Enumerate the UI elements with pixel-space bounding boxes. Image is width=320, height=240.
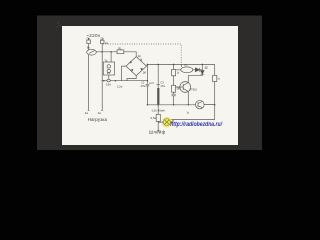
diode marks on bridge bbox=[130, 59, 144, 72]
svg-text:Нагрузка: Нагрузка bbox=[88, 117, 108, 122]
resistor 0,5м bbox=[156, 114, 160, 121]
transistor Т1 base bbox=[176, 84, 184, 90]
resistor R8 bbox=[213, 75, 217, 81]
wire Д5 branch bbox=[201, 64, 203, 70]
wire lamp branch bbox=[157, 105, 159, 115]
resistor R3 bbox=[172, 85, 176, 92]
transistor Т1 emitter bbox=[183, 89, 188, 105]
wire bbox=[173, 76, 175, 86]
dashed control wire bbox=[103, 44, 181, 64]
wire R-chain branch bbox=[173, 64, 175, 69]
svg-text:R1: R1 bbox=[118, 46, 122, 50]
wire relay to diode bbox=[193, 69, 196, 71]
switch contact bbox=[89, 51, 94, 54]
junction dots bbox=[101, 51, 215, 132]
transistor Т1 collector bbox=[183, 83, 188, 86]
wire bottom bus bbox=[171, 119, 214, 121]
relay Р1 coil bbox=[181, 67, 193, 73]
wire bbox=[88, 44, 90, 50]
wire transformer bottom bbox=[108, 75, 110, 79]
svg-text:http://radiobezdna.ru/: http://radiobezdna.ru/ bbox=[170, 121, 223, 128]
svg-text:0,5А: 0,5А bbox=[106, 84, 111, 87]
wire secondary bus bbox=[102, 80, 148, 82]
svg-text:Пр: Пр bbox=[87, 37, 91, 41]
wire to bridge bbox=[124, 52, 136, 57]
wire mid bus bbox=[147, 104, 214, 106]
transformer winding 1 bbox=[107, 65, 110, 68]
wire C3 branch bbox=[156, 64, 160, 88]
wire R8 branch bbox=[214, 64, 216, 75]
wire bridge bottom bbox=[127, 76, 136, 81]
wire load right bbox=[101, 44, 103, 111]
wire C2 branch bbox=[146, 64, 150, 104]
capacitor C3 body bbox=[157, 88, 159, 104]
wire right vertical bbox=[214, 82, 216, 120]
diode bar bbox=[199, 68, 202, 72]
wire primary feed bbox=[110, 52, 112, 62]
svg-text:2,2w: 2,2w bbox=[117, 84, 123, 88]
lamp Шлейф highlight bbox=[158, 117, 173, 128]
svg-text:Шлейф: Шлейф bbox=[149, 130, 166, 135]
resistor R2 bbox=[172, 70, 176, 76]
wire top bus bbox=[147, 64, 215, 66]
svg-text:47м: 47м bbox=[160, 84, 165, 88]
svg-text:2м: 2м bbox=[85, 111, 88, 115]
svg-text:1,5v 40мА: 1,5v 40мА bbox=[151, 108, 164, 112]
svg-text:С1: С1 bbox=[101, 37, 105, 41]
resistor R1 bbox=[117, 50, 124, 54]
svg-text:1м: 1м bbox=[105, 41, 108, 45]
transistor Т2 internals bbox=[198, 101, 203, 108]
capacitor C4 bbox=[171, 92, 175, 105]
relay lead left bbox=[176, 64, 182, 69]
transformer Тр box bbox=[103, 62, 114, 75]
transistor Т1 circle bbox=[180, 82, 191, 93]
transistor Т2 circle bbox=[196, 100, 205, 109]
wire to terminal bbox=[157, 121, 159, 130]
diode Д6 horizontal bbox=[195, 68, 199, 72]
wire mains left bbox=[88, 38, 90, 40]
wire bridge left bbox=[122, 66, 126, 81]
lamp small on bus bbox=[107, 79, 110, 82]
diode Д5 vertical bbox=[201, 71, 205, 74]
wire mains right bbox=[101, 38, 103, 40]
labels bbox=[85, 33, 221, 135]
svg-text:+С3: +С3 bbox=[149, 81, 154, 85]
svg-text:0,5м: 0,5м bbox=[151, 116, 157, 120]
svg-text:КТ815: КТ815 bbox=[190, 89, 198, 92]
fuse Пр left bbox=[87, 40, 91, 44]
svg-text:Д5: Д5 bbox=[205, 66, 209, 70]
wire load left bbox=[88, 55, 90, 111]
diode bar bbox=[188, 74, 204, 82]
svg-text:Р1: Р1 bbox=[184, 63, 188, 67]
svg-text:2м: 2м bbox=[98, 111, 101, 115]
svg-text:560: 560 bbox=[177, 88, 182, 91]
switch Вк oval bbox=[87, 49, 97, 55]
video panel bbox=[37, 16, 262, 151]
schematic paper bbox=[62, 26, 238, 145]
svg-text:47м: 47м bbox=[141, 84, 146, 88]
wire switch output bbox=[96, 51, 117, 53]
svg-text:2Ω: 2Ω bbox=[107, 72, 110, 75]
capacitor C1 box bbox=[101, 40, 105, 43]
diode bridge Д1-Д4 bbox=[126, 57, 147, 76]
transformer winding 2 bbox=[107, 69, 110, 72]
